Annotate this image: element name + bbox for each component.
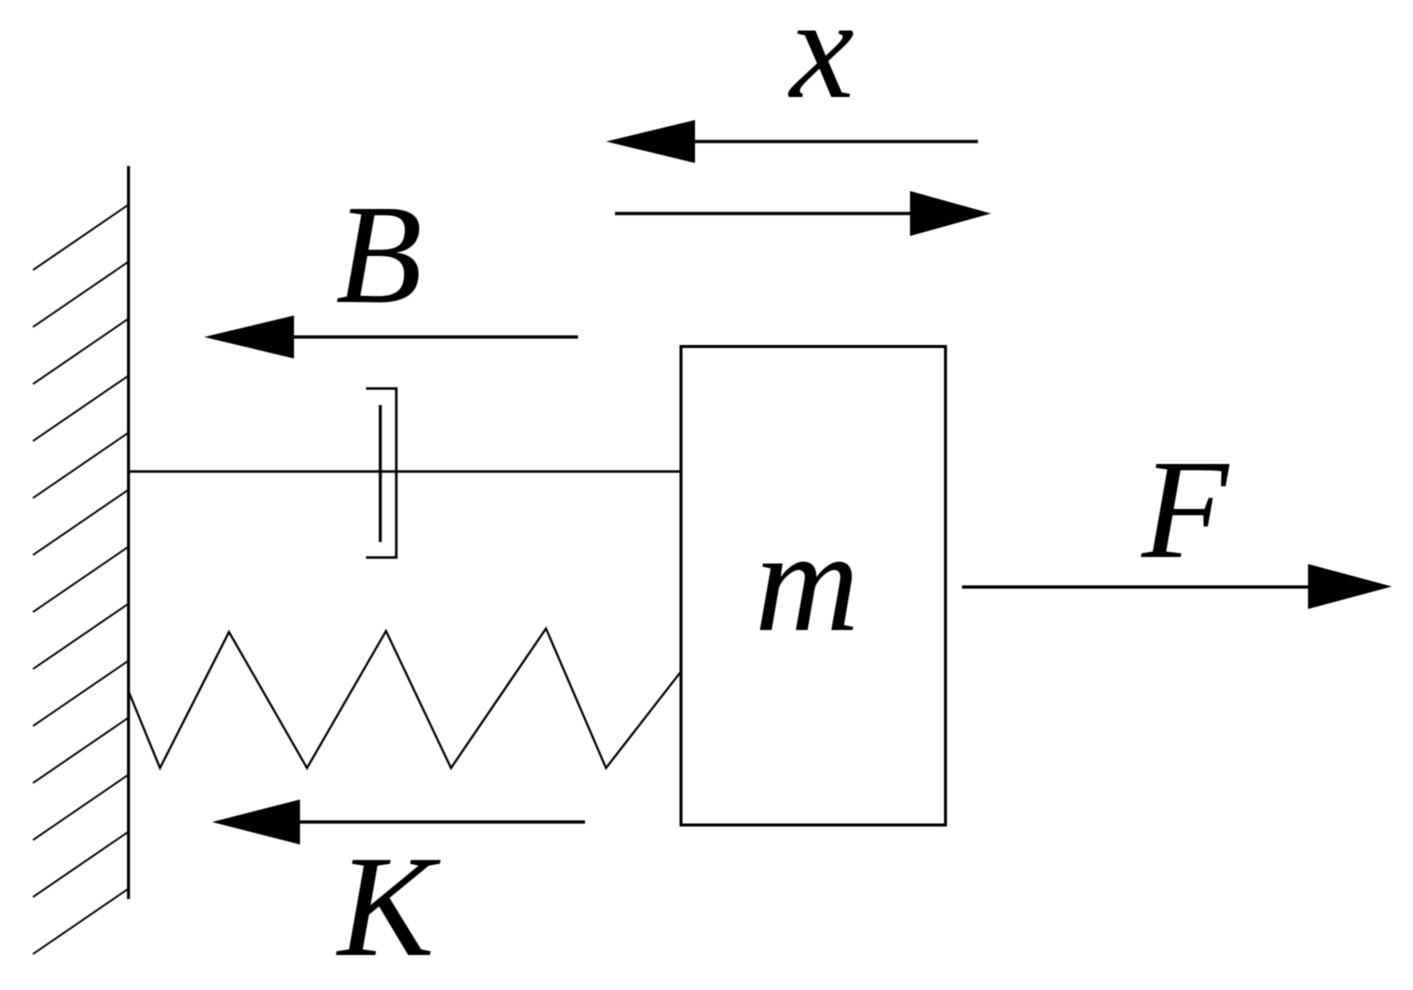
arrow x right — [615, 191, 991, 236]
damper piston — [379, 405, 382, 542]
damper cylinder — [366, 388, 398, 559]
svg-text:F: F — [1141, 430, 1230, 588]
mass m — [681, 347, 946, 826]
svg-text:m: m — [755, 502, 860, 662]
arrow B — [204, 316, 578, 359]
spring K — [128, 629, 681, 769]
arrow x left — [606, 120, 978, 163]
svg-text:K: K — [336, 827, 441, 987]
svg-text:B: B — [336, 175, 423, 333]
arrow K — [212, 800, 585, 845]
svg-text:x: x — [788, 0, 854, 129]
damper rod — [130, 470, 681, 473]
arrow F — [962, 564, 1392, 609]
wall hatching — [33, 205, 128, 954]
wall — [127, 166, 130, 899]
